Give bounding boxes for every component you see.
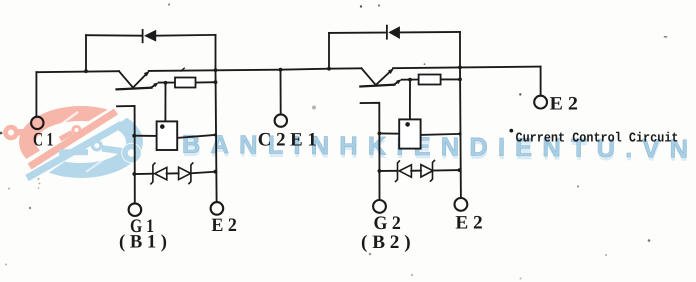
current control circuit box U1: [157, 121, 178, 150]
terminal E2 top right: [534, 96, 547, 109]
svg-text:Current Control Circuit: Current Control Circuit: [516, 131, 679, 146]
terminal C1: [31, 117, 43, 129]
transistor Q2 collector lead: [362, 68, 376, 85]
speck trail below logo a: [38, 178, 40, 180]
wire U2 right: [421, 134, 460, 135]
terminal E2 module1: [211, 202, 224, 215]
node dot sense2: [408, 78, 412, 82]
zener ZD1 bar: [150, 163, 155, 185]
wire sense vertical to U1: [164, 83, 166, 122]
speck bottom center faint: [520, 278, 522, 280]
speck left low b: [29, 207, 31, 209]
zener ZD1 triangle: [155, 167, 167, 179]
zener ZD2 triangle: [179, 167, 191, 179]
speck bottom right faint: [411, 274, 413, 276]
node dot gate1/zener: [132, 172, 136, 176]
transistor Q1 collector lead: [119, 71, 133, 87]
wire zener row right: [191, 172, 215, 174]
current control circuit box U2: [399, 119, 420, 148]
wire zener row left: [134, 173, 153, 175]
wire sense to node module2: [402, 79, 419, 81]
Q1 emitter arrowhead: [144, 71, 150, 77]
transistor Q1 sense emitter lead: [151, 84, 156, 88]
terminal C2E1: [275, 114, 287, 126]
speck bottom left corner: [5, 264, 7, 266]
wire diode loop top right: [156, 34, 216, 37]
speck trail below logo c: [38, 187, 40, 189]
wire bus B (Q1 to C2E1): [149, 70, 281, 71]
wire zener row2 left: [379, 170, 397, 172]
wire bus F (Q2 to rail2): [393, 66, 460, 69]
wire zener middle: [167, 172, 179, 174]
svg-text:( B 2 ): ( B 2 ): [361, 232, 411, 253]
blue right arm: [102, 148, 124, 151]
pink diagonal stripe: [30, 112, 117, 167]
transistor Q2 emitter lead: [376, 70, 392, 85]
svg-text:C 1: C 1: [33, 130, 54, 151]
svg-text:G 2: G 2: [374, 213, 401, 234]
speck top right dash: [664, 36, 667, 38]
white blanking behind big donut: [121, 143, 141, 163]
bullet before Current: [509, 129, 513, 133]
wire C2E1 drop: [280, 70, 282, 115]
transistor Q1 base bar: [117, 88, 152, 90]
svg-text:( B 1 ): ( B 1 ): [119, 232, 167, 253]
wire R1 to rail: [196, 81, 216, 83]
pink left arm: [18, 129, 41, 136]
wire U1 left: [134, 135, 156, 137]
resistor R2: [419, 75, 441, 85]
wire E2 rail module1 upper: [215, 35, 217, 70]
wire bus G (rail2 to E2 top): [460, 66, 541, 69]
wire sense vertical to U2: [409, 80, 411, 120]
speck mid smudge: [312, 106, 316, 110]
terminal G1: [129, 203, 142, 216]
node dot gate1/U1: [132, 134, 136, 138]
pink inner donut: [73, 126, 80, 133]
white trace detail in pink: [56, 112, 78, 128]
wire E2 top drop: [540, 67, 542, 96]
terminal G2: [373, 200, 386, 213]
node dot rail2/U2right: [458, 132, 461, 135]
speck left edge: [0, 132, 2, 135]
diode D1 cathode bar: [142, 29, 144, 43]
terminal E2 module2: [455, 198, 468, 211]
wire zener row2 right: [433, 169, 460, 172]
node dot bus/diode-loop left: [84, 69, 88, 73]
wire U2 left: [379, 132, 399, 134]
white trace detail in blue: [86, 158, 106, 172]
speck below B2: [369, 253, 372, 256]
blue inner donut: [93, 141, 101, 149]
transistor Q2 sense emitter lead: [394, 81, 399, 85]
blue arm big donut: [125, 146, 138, 159]
svg-text:E 2: E 2: [211, 215, 237, 236]
node dot rail1/U1right: [214, 133, 217, 136]
Q2 sense arrowhead: [396, 79, 402, 84]
zener ZD3 triangle: [399, 165, 411, 177]
zener ZD2 bar: [188, 162, 193, 184]
wire E2 rail module2 upper: [459, 32, 461, 68]
node dot sense1: [164, 81, 168, 85]
wire module2 loop top left: [329, 32, 386, 34]
wire zener2 middle: [411, 170, 421, 172]
zener ZD4 bar: [430, 160, 435, 182]
wire bus D (C2E1 to module2 loop): [281, 69, 330, 70]
transistor Q2 base bar: [360, 85, 394, 87]
speck trail below logo b: [39, 183, 41, 185]
speck top middle b: [378, 4, 380, 6]
wire C1 vertical: [35, 72, 37, 116]
wire U1 right: [177, 135, 215, 138]
dot inside U1: [160, 124, 165, 129]
watermark logo: [6, 106, 143, 178]
node dot bus/rail2: [458, 66, 462, 70]
speck top middle a: [360, 5, 362, 7]
svg-text:C 2 E 1: C 2 E 1: [258, 129, 317, 150]
wire sense to node: [159, 82, 175, 84]
pink inner trace: [60, 133, 72, 140]
node dot C2E1: [279, 68, 283, 72]
Q1 sense arrowhead: [153, 82, 159, 87]
blue diagonal stripe: [27, 124, 122, 178]
wire R2 to rail: [441, 78, 460, 80]
svg-text:E 2: E 2: [455, 213, 482, 234]
pink arm donut: [6, 127, 17, 138]
node dot rail1/zener: [214, 170, 218, 174]
wire module2 loop left vertical: [328, 33, 330, 69]
blue inner bar: [59, 149, 88, 155]
node dot gate2/zener: [378, 169, 382, 173]
wire gate stub Q1: [117, 106, 135, 203]
wire diode loop left vertical: [85, 35, 87, 71]
Q2 emitter arrowhead: [388, 68, 394, 74]
speck right low: [648, 239, 651, 242]
dot inside U2: [405, 122, 410, 127]
wire E2 rail module2 lower: [459, 67, 462, 198]
speck near E2 top: [519, 93, 521, 95]
zener ZD3 bar: [395, 160, 400, 182]
node dot rail2/zener: [458, 168, 462, 172]
wire module2 loop top right: [400, 31, 460, 34]
resistor R1: [175, 78, 196, 88]
tick mark on bus: [181, 68, 184, 71]
zener ZD4 triangle: [421, 165, 433, 177]
node dot bus/rail1: [214, 68, 218, 72]
wire bus A (C1 to Q1): [36, 71, 119, 72]
pink ring upper-left crescent: [19, 106, 143, 178]
speck left low a: [8, 188, 10, 190]
blue ring lower-right crescent: [19, 106, 143, 178]
wire bus E (to Q2): [329, 67, 362, 69]
node dot R1/rail1: [214, 80, 218, 84]
wire gate stub Q2: [361, 103, 380, 200]
wire diode loop top left: [86, 34, 142, 37]
speck right low faint: [605, 254, 607, 256]
diode D2 cathode bar: [386, 25, 388, 40]
diode D1 triangle: [144, 30, 156, 42]
speck right mid: [577, 185, 579, 187]
svg-text:E 2: E 2: [550, 94, 579, 115]
diode D2 triangle: [388, 26, 400, 39]
node dot module2 loop left: [327, 67, 331, 71]
node dot R2/rail2: [458, 78, 462, 82]
transistor Q1 emitter lead: [133, 73, 148, 88]
wire E2 rail module1 lower: [216, 70, 217, 202]
speck top left: [168, 3, 170, 5]
speck on bus2: [424, 63, 426, 65]
node dot gate2/U2: [378, 132, 382, 136]
